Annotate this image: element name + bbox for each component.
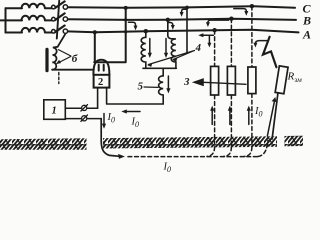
svg-text:I0: I0 xyxy=(163,162,172,175)
svg-text:4: 4 xyxy=(195,42,202,54)
svg-text:I0: I0 xyxy=(254,106,263,119)
svg-text:1: 1 xyxy=(52,106,57,117)
svg-text:A: A xyxy=(302,27,311,41)
svg-text:2: 2 xyxy=(98,77,103,88)
svg-text:Rзм: Rзм xyxy=(287,71,302,85)
svg-text:б: б xyxy=(72,53,78,65)
svg-text:I0: I0 xyxy=(107,112,116,125)
svg-text:3: 3 xyxy=(183,76,190,88)
svg-text:I0: I0 xyxy=(131,117,140,130)
svg-text:5: 5 xyxy=(138,80,144,92)
svg-text:B: B xyxy=(302,14,311,28)
